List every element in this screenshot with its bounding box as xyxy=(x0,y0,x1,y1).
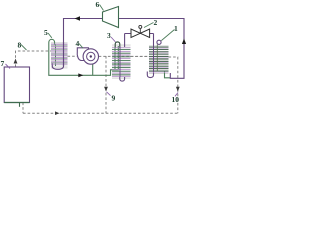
svg-text:7: 7 xyxy=(1,59,5,68)
svg-text:9: 9 xyxy=(112,94,116,103)
svg-text:5: 5 xyxy=(44,28,48,37)
svg-text:10: 10 xyxy=(172,95,180,104)
svg-text:4: 4 xyxy=(76,39,80,48)
svg-text:3: 3 xyxy=(107,31,111,40)
svg-text:2: 2 xyxy=(154,18,158,27)
svg-text:8: 8 xyxy=(18,41,22,50)
svg-text:6: 6 xyxy=(96,0,100,9)
svg-text:1: 1 xyxy=(174,24,178,33)
